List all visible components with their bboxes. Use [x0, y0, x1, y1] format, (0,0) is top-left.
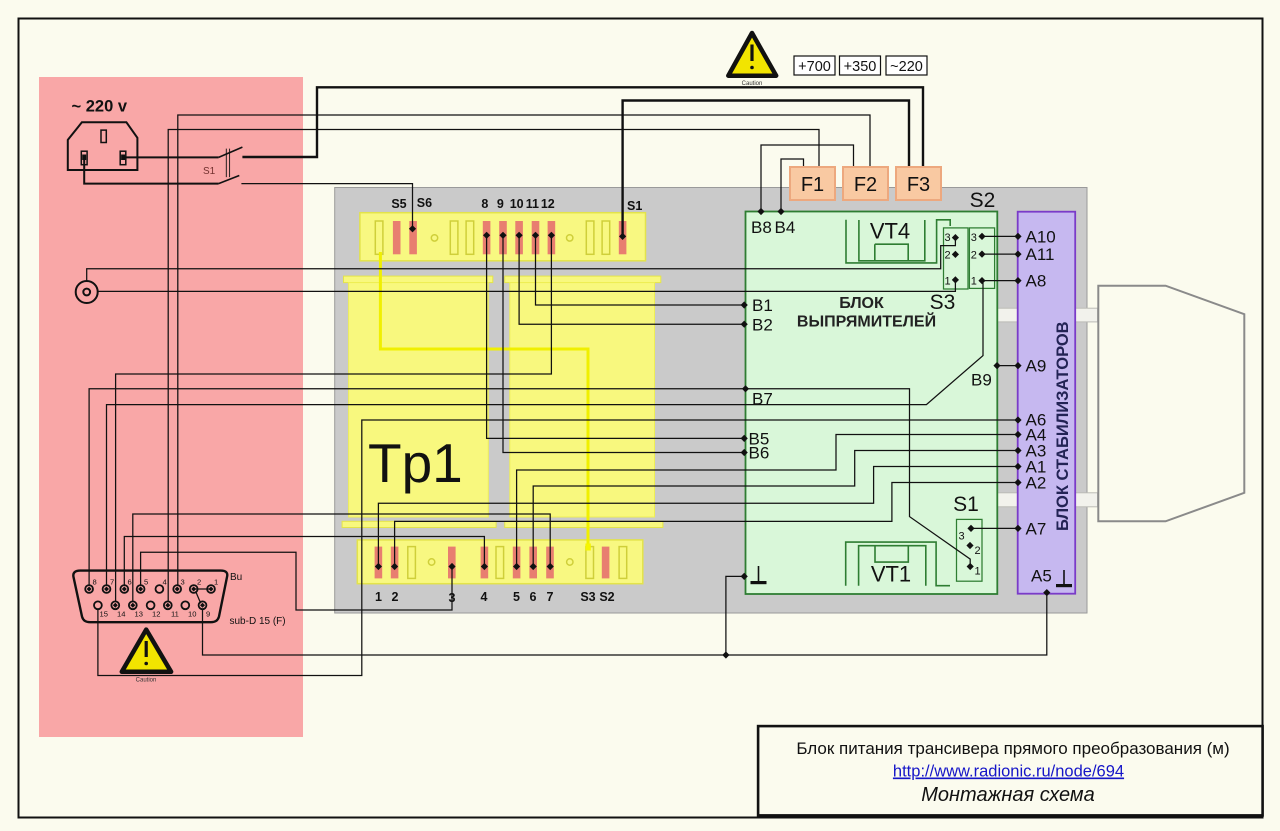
svg-text:11: 11: [171, 610, 179, 619]
svg-text:Caution: Caution: [742, 81, 763, 87]
wire: sub-D pin 7 to S3 right pin 1 (net B9): [107, 282, 984, 586]
node B7: [742, 385, 749, 392]
transistor VT1 heatsink symbol: [846, 542, 950, 586]
node B5: [741, 435, 748, 442]
node slot3 junction: [448, 563, 455, 570]
mains plug XP1: [68, 122, 138, 170]
wire: fuse F1 right to sub-D pin 11: [168, 130, 819, 602]
node B2: [741, 321, 748, 328]
stabilizer block (purple): [1018, 212, 1075, 594]
wire: sub-D pin 8 to B7 and on to S1 pin 1: [89, 389, 970, 586]
svg-text:VT1: VT1: [871, 562, 911, 587]
svg-text:B1: B1: [752, 296, 773, 315]
wire: coax center to S3 left pin 3: [87, 238, 956, 281]
svg-text:B4: B4: [775, 218, 796, 237]
wire: B8 up to fuse F2 left: [761, 145, 854, 212]
voltage label box ~220: [886, 56, 927, 75]
bottom strip screw holes: [428, 559, 434, 565]
node slot10 junction: [516, 232, 523, 239]
svg-text:S1: S1: [627, 199, 642, 213]
node A9 left: [993, 362, 1000, 369]
svg-text:2: 2: [975, 545, 981, 557]
wire: strip slot 8 to B5: [487, 235, 745, 438]
node A3: [1014, 447, 1021, 454]
node slot9 junction: [499, 232, 506, 239]
wire: sub-D pin 2 to pin 9: [196, 591, 201, 603]
wire: bottom slot 2 to A2: [395, 483, 1018, 567]
svg-text:3: 3: [181, 578, 185, 587]
plug pin contact dots: [82, 155, 86, 161]
bottom terminal strip: [357, 540, 643, 584]
node slot12 junction: [548, 232, 555, 239]
wire: sub-D pin 5 to bottom slot 3: [141, 552, 452, 610]
switch S1 mechanical link: [226, 149, 229, 178]
node A10: [1014, 233, 1021, 240]
connector S3 left box: [944, 228, 969, 289]
svg-text:3: 3: [945, 232, 951, 244]
svg-text:+700: +700: [798, 59, 831, 75]
transformer bottom flange right: [505, 521, 663, 527]
wire: switch upper pole to fuse F3 (thick 220V line): [242, 87, 923, 167]
S1 pin 3: [967, 525, 974, 532]
wire: strip slot 11 to B1: [536, 235, 745, 305]
svg-text:A10: A10: [1026, 227, 1056, 246]
plug ground pin: [101, 130, 106, 142]
svg-text:12: 12: [541, 197, 555, 211]
node A4: [1014, 431, 1021, 438]
node slot6 junction: [530, 563, 537, 570]
wire: S3 right pin 3 to A10: [982, 235, 1018, 237]
svg-text:S1: S1: [203, 166, 216, 177]
node A1: [1014, 463, 1021, 470]
node A9: [1014, 362, 1021, 369]
svg-text:2: 2: [197, 578, 201, 587]
svg-text:1: 1: [214, 578, 218, 587]
svg-text:4: 4: [163, 578, 167, 587]
node B1: [741, 301, 748, 308]
net labels B: [749, 218, 992, 463]
S3 right pin 2: [978, 251, 985, 258]
svg-text:sub-D 15 (F): sub-D 15 (F): [230, 616, 286, 627]
wire: strip slot 10 to B2: [519, 235, 744, 324]
top strip red contact slots S5 S6 8 9 10 11 12 S1: [393, 221, 626, 254]
top strip screw holes: [431, 235, 437, 241]
voltage label box +700: [794, 56, 835, 75]
bottom strip labels: [375, 590, 615, 605]
node B4: [777, 208, 784, 215]
winding wire (yellow) from top-left slot to bottom S3 slot: [380, 252, 588, 549]
svg-text:6: 6: [530, 590, 537, 604]
svg-text:B6: B6: [749, 444, 770, 463]
svg-text:S6: S6: [417, 196, 432, 210]
svg-text:6: 6: [128, 578, 132, 587]
svg-text:12: 12: [152, 610, 160, 619]
svg-text:1: 1: [971, 276, 977, 288]
svg-text:~ 220 v: ~ 220 v: [72, 98, 128, 116]
svg-text:Tp1: Tp1: [368, 432, 463, 494]
svg-text:B8: B8: [751, 218, 772, 237]
svg-text:~220: ~220: [890, 59, 923, 75]
svg-text:+350: +350: [844, 59, 877, 75]
connector S1 box in green block: [957, 519, 983, 581]
sub-D pin number labels: [93, 578, 219, 619]
svg-text:7: 7: [547, 590, 554, 604]
svg-text:13: 13: [135, 610, 143, 619]
transformer top flange right: [505, 276, 661, 283]
gray chassis region: [335, 188, 1087, 614]
rectifier ground symbol: [758, 566, 760, 581]
svg-text:3: 3: [971, 232, 977, 244]
transformer right winding body: [510, 283, 655, 517]
svg-text:B2: B2: [752, 316, 773, 335]
fuse F2: [843, 167, 888, 200]
sub-D 15 connector shell: [73, 571, 227, 623]
transformer bottom flange left: [342, 521, 496, 527]
svg-text:S3: S3: [580, 590, 595, 604]
coax connector X1: [76, 281, 98, 303]
switch S1 upper pole: [123, 156, 219, 158]
light cable band lower: [997, 493, 1098, 507]
S3 right pin 3: [978, 233, 985, 240]
svg-text:Монтажная схема: Монтажная схема: [921, 784, 1095, 806]
svg-text:VT4: VT4: [870, 219, 910, 244]
svg-text:8: 8: [481, 197, 488, 211]
svg-text:F1: F1: [801, 174, 824, 196]
S3 right pin 1: [978, 277, 985, 284]
node slot7 junction: [547, 563, 554, 570]
svg-text:2: 2: [392, 590, 399, 604]
wire: sub-D pin 13 to bottom slot 7: [133, 514, 550, 602]
sub-D filled pin centers: [87, 587, 214, 608]
svg-text:БЛОК СТАБИЛИЗАТОРОВ: БЛОК СТАБИЛИЗАТОРОВ: [1054, 321, 1072, 531]
transformer left winding body: [349, 283, 489, 517]
external connector shell (right side): [1098, 286, 1244, 522]
top strip labels: [391, 196, 642, 213]
wire: S1 pin 3 to A7: [971, 527, 1018, 529]
bottom strip empty slots: [408, 547, 627, 579]
top strip empty slots: [375, 221, 609, 254]
wire: S3 right pin 1 to A8: [982, 280, 1018, 282]
plug left pin: [81, 151, 87, 165]
node slot4 junction: [481, 563, 488, 570]
warning triangle (top): [728, 33, 776, 76]
svg-text:S5: S5: [391, 197, 406, 211]
node rectifier ground: [741, 573, 748, 580]
svg-text:2: 2: [945, 250, 951, 262]
svg-text:A5: A5: [1031, 567, 1052, 586]
wire: bottom slot 1 to A1: [378, 467, 1018, 567]
node slot8 junction: [483, 232, 490, 239]
connector S3 right box: [969, 228, 994, 289]
wire: bottom slot 5 to A4: [517, 435, 1018, 567]
plug right pin: [120, 151, 126, 165]
svg-text:S3: S3: [930, 291, 956, 314]
svg-text:8: 8: [93, 578, 97, 587]
node S6 junction: [409, 225, 416, 232]
wire: sub-D pin 2 to pin 1: [194, 588, 211, 590]
svg-text:S2: S2: [599, 590, 614, 604]
wire: strip slot 12 to sub-D pin 14: [116, 235, 552, 602]
svg-text:F2: F2: [854, 174, 877, 196]
bottom strip red contact slots 1 2 3 4 5 6 7 S2: [375, 547, 610, 579]
svg-text:9: 9: [206, 610, 210, 619]
node A7: [1014, 525, 1021, 532]
svg-text:4: 4: [481, 590, 488, 604]
title block: [758, 726, 1263, 815]
wire: sub-D pin 6 to bottom slot 4: [124, 537, 484, 586]
node A2: [1014, 479, 1021, 486]
svg-text:3: 3: [959, 531, 965, 543]
svg-text:ВЫПРЯМИТЕЛЕЙ: ВЫПРЯМИТЕЛЕЙ: [797, 312, 936, 331]
A5 ground symbol: [1063, 570, 1065, 584]
svg-text:7: 7: [110, 578, 114, 587]
svg-text:2: 2: [971, 250, 977, 262]
svg-text:A7: A7: [1026, 519, 1047, 538]
svg-text:1: 1: [945, 276, 951, 288]
svg-text:5: 5: [513, 590, 520, 604]
svg-text:10: 10: [188, 610, 196, 619]
svg-text:1: 1: [975, 566, 981, 578]
node B6: [741, 449, 748, 456]
wire: S3 right pin 2 to A11: [982, 253, 1018, 255]
wire: strip slot 9 to B6: [503, 235, 744, 452]
wire: strip S1 slot up to fuse F3 (thick 220V line): [623, 101, 909, 237]
S3 left pin 2: [952, 251, 959, 258]
svg-text:S1: S1: [953, 493, 979, 516]
node B8: [757, 208, 764, 215]
svg-text:http://www.radionic.ru/node/69: http://www.radionic.ru/node/694: [893, 763, 1124, 781]
wire: coax shield to S3 left pin 1: [98, 280, 956, 292]
svg-text:S2: S2: [970, 189, 996, 212]
wire: A9 link: [997, 365, 1018, 367]
node slot1 junction: [375, 563, 382, 570]
fuse F1: [790, 167, 835, 200]
rectifier block (green): [746, 212, 998, 595]
wire: sub-D pin 9 to ground junction to A5: [203, 593, 1047, 655]
svg-text:A9: A9: [1026, 357, 1047, 376]
svg-text:B7: B7: [752, 390, 773, 409]
transformer Tp1 : top terminal strip: [360, 213, 646, 261]
svg-text:9: 9: [497, 197, 504, 211]
svg-text:Блок питания трансивера прямог: Блок питания трансивера прямого преобраз…: [796, 739, 1229, 758]
S1 pin 2: [966, 542, 973, 549]
sub-D pins bottom row 15..9: [94, 601, 206, 609]
voltage label box +350: [840, 56, 881, 75]
svg-text:A8: A8: [1026, 272, 1047, 291]
svg-text:14: 14: [117, 610, 125, 619]
svg-text:11: 11: [526, 197, 539, 211]
warning triangle (pink area): [122, 630, 171, 672]
svg-text:5: 5: [144, 578, 148, 587]
node S1 strip junction: [619, 233, 626, 240]
light cable band upper: [997, 308, 1098, 322]
transistor VT4 heatsink symbol: [846, 220, 950, 263]
node slot11 junction: [532, 232, 539, 239]
svg-text:Bu: Bu: [230, 572, 242, 583]
wire: rectifier ground to junction: [726, 576, 744, 655]
node A5: [1043, 589, 1050, 596]
node ground junction: [722, 651, 729, 658]
node A11: [1014, 251, 1021, 258]
svg-text:A11: A11: [1026, 245, 1055, 264]
svg-text:1: 1: [375, 590, 382, 604]
switch S1 lower pole lead from plug: [84, 160, 218, 184]
sub-D pins top row 8..1: [85, 585, 215, 593]
wire: bottom slot 6 to A3: [533, 451, 1018, 567]
wire: B4 up to fuse F1 left: [781, 159, 804, 212]
wire: switch lower pole to strip S6 slot: [241, 184, 412, 229]
S1 connector pin labels: [959, 531, 981, 578]
node slot5 junction: [513, 563, 520, 570]
wire: sub-D pin 15 to A6: [98, 420, 1018, 676]
node A6: [1014, 416, 1021, 423]
svg-text:A2: A2: [1026, 474, 1047, 493]
svg-text:B9: B9: [971, 371, 992, 390]
fuse F3: [896, 167, 941, 200]
svg-text:Caution: Caution: [136, 678, 157, 684]
S3 left pin 3: [952, 234, 959, 241]
wire: fuse F2 right to sub-D pin 3: [178, 115, 870, 586]
node slot2 junction: [391, 563, 398, 570]
A-pin labels on stabilizer block: [1026, 227, 1056, 585]
S3 left pin 1: [952, 276, 959, 283]
svg-text:10: 10: [510, 197, 524, 211]
transformer top flange left: [344, 276, 493, 283]
S1 pin 1: [967, 563, 974, 570]
S3 pin labels: [945, 232, 977, 288]
svg-text:15: 15: [100, 610, 108, 619]
node A8: [1014, 277, 1021, 284]
svg-text:F3: F3: [907, 174, 930, 196]
svg-text:БЛОК: БЛОК: [839, 295, 884, 312]
pink 220V region: [39, 77, 303, 737]
